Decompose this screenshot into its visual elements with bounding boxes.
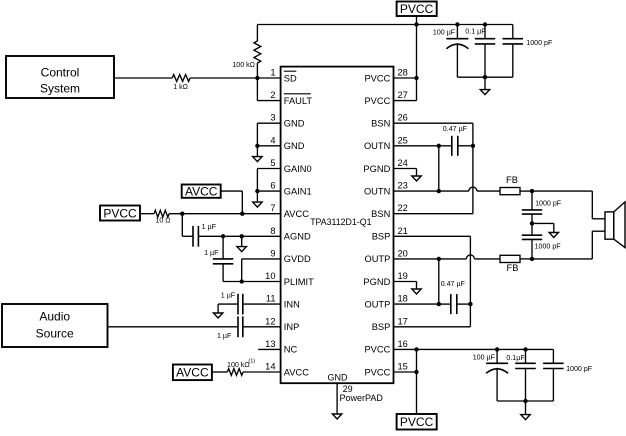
wire PowerPAD to ground xyxy=(336,383,338,414)
wire GAIN to ground xyxy=(256,191,258,202)
U1 pin 5 (GAIN0) label xyxy=(270,158,311,174)
node OUTN25 junction xyxy=(437,144,441,148)
svg-text:GND: GND xyxy=(328,373,349,383)
wire PVCC pin27 xyxy=(394,78,417,101)
wire PVCC pin15 xyxy=(394,371,417,373)
node AVCC filter junction xyxy=(180,212,184,216)
U1 pin 13 (NC) label xyxy=(265,339,297,355)
svg-text:PGND: PGND xyxy=(363,277,390,287)
svg-text:TPA3112D1-Q1: TPA3112D1-Q1 xyxy=(310,217,371,227)
block PVCC bottom label xyxy=(397,414,437,430)
label C13 0.1 uF xyxy=(506,354,525,362)
wire GVDD pin9 to PLIMIT xyxy=(242,259,281,282)
node PVCC16 junction xyxy=(414,347,418,351)
wire C2 to PLIMIT pin10 xyxy=(223,264,281,282)
svg-text:13: 13 xyxy=(265,339,275,349)
wire PVCC rail to pin28 xyxy=(416,25,418,79)
wire OUTP to speaker xyxy=(532,231,605,259)
wire rail corner to C14 xyxy=(552,349,554,363)
node rail-C13 junction xyxy=(523,347,527,351)
wire GND pin4 xyxy=(257,145,280,147)
svg-text:BSN: BSN xyxy=(371,209,390,219)
wire C8 to BSN xyxy=(458,145,473,147)
wire BSP pin17 xyxy=(394,326,471,328)
label C12 100 uF xyxy=(473,354,496,362)
wire R2 to node SD xyxy=(190,77,281,79)
wire C6 bottom lead xyxy=(484,44,486,77)
svg-text:0.1µF: 0.1µF xyxy=(506,354,525,362)
node BSN-C8 junction xyxy=(471,144,475,148)
wire top bank bottom rail xyxy=(457,76,512,78)
wire FB1 to output node xyxy=(520,190,532,192)
node GVDD-PLIMIT junction xyxy=(240,279,244,283)
node AGND-C2 junction xyxy=(221,234,225,238)
wire bottom bank ground stub xyxy=(525,401,527,415)
ground PGND24 xyxy=(412,176,421,181)
wire rail corner to R1 xyxy=(256,25,258,42)
svg-text:7: 7 xyxy=(270,203,275,213)
ground PGND19 xyxy=(412,289,421,294)
node rail-C5 junction xyxy=(455,22,459,26)
svg-text:1000 pF: 1000 pF xyxy=(535,243,562,251)
ground mid filter xyxy=(549,233,558,238)
capacitor C7 1000 pF xyxy=(503,39,524,44)
wire OUTN pin25 xyxy=(394,145,439,147)
label C7 1000 pF xyxy=(526,39,553,47)
wire C10 to OUTP node xyxy=(531,239,533,259)
svg-text:6: 6 xyxy=(270,181,275,191)
U1 pin 17 (BSP) label xyxy=(372,316,408,332)
U1 pin 9 (GVDD) label xyxy=(270,248,311,264)
wire C14 bottom lead xyxy=(552,369,554,402)
U1 pin 6 (GAIN1) label xyxy=(270,181,311,197)
node OUTP18 junction xyxy=(437,302,441,306)
svg-text:PVCC: PVCC xyxy=(364,367,390,377)
wire GND pins to ground xyxy=(256,146,258,157)
svg-text:1 kΩ: 1 kΩ xyxy=(173,83,188,91)
wire mid node to ground xyxy=(532,223,554,232)
wire GAIN0 pin5 xyxy=(257,169,280,192)
svg-text:OUTN: OUTN xyxy=(364,141,390,151)
svg-text:OUTP: OUTP xyxy=(364,254,390,264)
node AGND-gnd junction xyxy=(240,234,244,238)
svg-text:1: 1 xyxy=(270,68,275,78)
wire AVCC label to pin7 xyxy=(221,191,243,214)
svg-text:PowerPAD: PowerPAD xyxy=(340,393,384,403)
U1 pin 18 (OUTP) label xyxy=(364,294,407,310)
svg-text:FB: FB xyxy=(507,263,519,273)
svg-text:12: 12 xyxy=(265,316,275,326)
wire PVCC to R3 xyxy=(140,213,154,215)
svg-text:21: 21 xyxy=(398,226,408,236)
U1 pin 23 (OUTN) label xyxy=(364,181,408,197)
wire C4 to INP pin12 xyxy=(243,326,281,328)
node OUTP output junction xyxy=(530,257,534,261)
svg-text:AGND: AGND xyxy=(284,232,311,242)
ground GND3-4 xyxy=(253,157,262,162)
svg-text:PVCC: PVCC xyxy=(364,73,390,83)
label C6 0.1 uF xyxy=(465,27,486,35)
svg-text:0.1 µF: 0.1 µF xyxy=(465,27,486,35)
node SD junction xyxy=(255,76,259,80)
svg-text:PGND: PGND xyxy=(363,164,390,174)
svg-text:Source: Source xyxy=(36,327,74,341)
wire AVCC to C1 xyxy=(182,214,193,237)
resistor R2 1 k&#937; xyxy=(172,75,190,82)
svg-text:1000 pF: 1000 pF xyxy=(526,39,553,47)
node OUTN output junction xyxy=(530,189,534,193)
wire OUTN vertical link xyxy=(438,146,440,191)
node OUTN23 junction xyxy=(437,189,441,193)
U1 pin 26 (BSN) label xyxy=(371,113,408,129)
node rail-C12 junction xyxy=(495,347,499,351)
ground top bank xyxy=(480,90,489,95)
ground AGND xyxy=(237,247,246,252)
svg-text:8: 8 xyxy=(270,226,275,236)
wire C6 top lead xyxy=(484,25,486,39)
block AVCC label lower xyxy=(173,365,212,381)
node PVCC15 junction xyxy=(414,370,418,374)
node bottom bank ground junction xyxy=(523,399,527,403)
wire OUTN pin23 to FB xyxy=(394,187,501,191)
U1 pin 10 (PLIMIT) label xyxy=(265,271,314,287)
block AVCC label upper xyxy=(182,185,221,199)
ferrite bead FB1 xyxy=(500,188,520,195)
U1 pin 7 (AVCC) label xyxy=(270,203,309,219)
wire BSN pin22 xyxy=(394,213,473,215)
wire bottom bank rail xyxy=(497,400,553,402)
svg-text:3: 3 xyxy=(270,113,275,123)
label C10 1000 pF xyxy=(535,243,562,251)
wire PVCC label drop xyxy=(416,16,418,25)
node rail-PVCC junction xyxy=(414,22,418,26)
label C5 100 uF xyxy=(433,28,456,36)
svg-text:27: 27 xyxy=(398,90,408,100)
node BSP-C11 junction xyxy=(468,302,472,306)
svg-text:FB: FB xyxy=(506,175,518,185)
svg-text:AVCC: AVCC xyxy=(284,209,309,219)
wire GAIN1 pin6 xyxy=(257,190,280,192)
svg-text:1000 pF: 1000 pF xyxy=(535,200,562,208)
U1 pin 29 PowerPAD label xyxy=(328,373,384,403)
wire Control System to R2 xyxy=(114,77,172,79)
svg-text:1 µF: 1 µF xyxy=(204,249,219,257)
svg-text:PLIMIT: PLIMIT xyxy=(284,277,314,287)
label C1 1 uF xyxy=(202,223,217,231)
svg-text:10 Ω: 10 Ω xyxy=(155,217,170,225)
wire C5 bottom lead xyxy=(456,43,458,77)
node GND3-4 junction xyxy=(255,144,259,148)
wire OUTN to speaker xyxy=(532,191,605,219)
svg-text:2: 2 xyxy=(270,90,275,100)
U1 pin 3 (GND) label xyxy=(270,113,304,129)
label R3 10 &#937; xyxy=(155,217,170,225)
wire OUTP pin20 to FB xyxy=(394,255,501,259)
wire C7 bottom lead xyxy=(512,44,514,77)
svg-text:NC: NC xyxy=(284,345,298,355)
ground GAIN xyxy=(253,202,262,207)
U1 pin 21 (BSP) label xyxy=(372,226,408,242)
block PVCC left label xyxy=(100,206,140,221)
label C3 1 uF xyxy=(221,292,236,300)
wire BSP vertical lower xyxy=(469,304,471,327)
svg-text:(1): (1) xyxy=(248,358,255,364)
wire AVCC to R4 xyxy=(212,371,228,373)
wire Audio Source to C4 xyxy=(108,326,238,328)
svg-text:4: 4 xyxy=(270,135,275,145)
wire FAULT to node SD xyxy=(257,78,280,101)
node OUTP20 junction xyxy=(437,257,441,261)
svg-text:25: 25 xyxy=(398,135,408,145)
wire NC pin13 stub xyxy=(258,348,280,350)
label C4 1 uF xyxy=(217,332,232,340)
svg-text:GAIN0: GAIN0 xyxy=(284,164,312,174)
svg-text:5: 5 xyxy=(270,158,275,168)
svg-text:10: 10 xyxy=(265,271,275,281)
U1 pin 15 (PVCC) label xyxy=(364,362,407,378)
svg-text:Audio: Audio xyxy=(39,310,70,324)
label R1 100 k&#937; xyxy=(232,61,255,69)
label FB2 xyxy=(507,263,519,273)
node rail-C6 junction xyxy=(483,22,487,26)
wire C5 top lead xyxy=(456,25,458,39)
wire OUTP vertical link xyxy=(438,259,440,304)
svg-text:PVCC: PVCC xyxy=(364,345,390,355)
capacitor C3 1 uF INN xyxy=(238,294,243,315)
svg-text:GND: GND xyxy=(284,119,305,129)
wire C10 top lead xyxy=(531,223,533,235)
U1 pin 25 (OUTN) label xyxy=(364,135,408,151)
node top bank ground junction xyxy=(483,75,487,79)
ground INN xyxy=(213,313,222,318)
wire C1 to AGND pin8 xyxy=(198,235,280,237)
ferrite bead FB2 xyxy=(500,255,520,262)
block Control System xyxy=(6,56,114,98)
wire PVCC pin28 xyxy=(394,77,417,79)
svg-text:PVCC: PVCC xyxy=(400,415,434,429)
U1 pin 4 (GND) label xyxy=(270,135,304,151)
wire top bank ground stub xyxy=(484,77,486,89)
wire OUTN25 to C8 xyxy=(439,145,452,147)
svg-text:28: 28 xyxy=(398,68,408,78)
svg-text:PVCC: PVCC xyxy=(400,2,434,16)
svg-text:AVCC: AVCC xyxy=(185,185,218,199)
capacitor C4 1 uF INP xyxy=(238,316,243,337)
wire GND pin3 xyxy=(257,123,280,146)
svg-text:26: 26 xyxy=(398,113,408,123)
svg-text:19: 19 xyxy=(398,271,408,281)
wire top rail PVCC xyxy=(257,24,512,26)
U1 pin 14 (AVCC) label xyxy=(265,362,309,378)
svg-text:23: 23 xyxy=(398,181,408,191)
svg-text:16: 16 xyxy=(398,339,408,349)
svg-text:FAULT: FAULT xyxy=(284,96,313,106)
svg-text:9: 9 xyxy=(270,248,275,258)
U1 pin 16 (PVCC) label xyxy=(364,339,407,355)
speaker LS1 xyxy=(605,202,625,248)
svg-text:17: 17 xyxy=(398,316,408,326)
node mid cap junction xyxy=(530,221,534,225)
capacitor C5 100 uF xyxy=(446,39,468,49)
svg-text:1 µF: 1 µF xyxy=(217,332,232,340)
U1 pin 27 (PVCC) label xyxy=(364,90,407,106)
svg-text:OUTN: OUTN xyxy=(364,186,390,196)
svg-text:INP: INP xyxy=(284,322,300,332)
U1 pin 28 (PVCC) label xyxy=(364,68,407,84)
wire FB2 to output node xyxy=(520,258,532,260)
wire BSN pin26 xyxy=(394,123,473,146)
svg-text:OUTP: OUTP xyxy=(364,299,390,309)
U1 part label TPA3112D1-Q1 xyxy=(310,217,371,227)
wire pin16 rail xyxy=(417,348,554,350)
wire C12 bottom lead xyxy=(496,368,498,401)
wire OUTP pin18 to C11 xyxy=(394,303,451,305)
capacitor C12 100 uF xyxy=(486,363,508,373)
wire PVCC bottom drop xyxy=(416,349,418,414)
svg-text:0.47 µF: 0.47 µF xyxy=(443,125,468,133)
wire C11 to BSP xyxy=(457,303,471,305)
resistor R3 10 &#937; xyxy=(154,210,169,217)
wire R4 to AVCC pin14 xyxy=(243,371,281,373)
svg-text:15: 15 xyxy=(398,362,408,372)
wire C13 top lead xyxy=(525,349,527,363)
svg-text:AVCC: AVCC xyxy=(176,366,209,380)
capacitor C1 1 uF AVCC xyxy=(193,226,198,247)
resistor R1 100 k&#937; pull-up xyxy=(254,41,261,63)
wire C9 to mid node xyxy=(531,214,533,223)
node GAIN junction xyxy=(255,189,259,193)
capacitor C14 1000 pF xyxy=(543,363,564,368)
U1 pin 2 (FAULT) label xyxy=(270,90,312,106)
capacitor C6 0.1 uF xyxy=(475,39,495,44)
svg-text:20: 20 xyxy=(398,248,408,258)
U1 pin 22 (BSN) label xyxy=(371,203,408,219)
label R2 1 k&#937; xyxy=(173,83,188,91)
label R4 100 k&#937; xyxy=(227,358,255,369)
svg-text:1 µF: 1 µF xyxy=(221,292,236,300)
svg-text:INN: INN xyxy=(284,299,300,309)
wire PGND pin24 xyxy=(394,169,417,177)
svg-text:System: System xyxy=(40,82,80,96)
svg-text:24: 24 xyxy=(398,158,408,168)
U1 pin 8 (AGND) label xyxy=(270,226,311,242)
block PVCC top label xyxy=(397,2,437,17)
U1 pin 12 (INP) label xyxy=(265,316,299,332)
wire AGND to C2 xyxy=(222,236,224,258)
U1 pin 19 (PGND) label xyxy=(363,271,407,287)
wire R3 to AVCC pin7 xyxy=(169,213,281,215)
wire PGND pin19 xyxy=(394,282,417,290)
label C11 0.47 uF xyxy=(441,280,466,288)
wire C9 top lead xyxy=(531,191,533,210)
node PVCC28 junction xyxy=(414,76,418,80)
wire BSP pin21 xyxy=(394,236,471,304)
svg-text:BSP: BSP xyxy=(372,322,391,332)
svg-text:100 kΩ: 100 kΩ xyxy=(232,61,255,69)
svg-text:GVDD: GVDD xyxy=(284,254,311,264)
svg-text:1 µF: 1 µF xyxy=(202,223,217,231)
label C2 1 uF xyxy=(204,249,219,257)
U1 pin 20 (OUTP) label xyxy=(364,248,407,264)
wire AGND to ground xyxy=(241,236,243,246)
svg-text:14: 14 xyxy=(265,362,275,372)
wire BSN vertical xyxy=(472,146,474,214)
capacitor C13 0.1 uF xyxy=(515,363,536,368)
label C9 1000 pF xyxy=(535,200,562,208)
svg-text:BSP: BSP xyxy=(372,232,391,242)
svg-text:GAIN1: GAIN1 xyxy=(284,186,312,196)
capacitor C10 1000 pF xyxy=(522,235,542,239)
wire C12 top lead xyxy=(496,349,498,363)
op-amp U1 TPA3112D1-Q1 body xyxy=(281,67,394,384)
svg-text:100 kΩ: 100 kΩ xyxy=(227,361,250,369)
wire INN to ground branch xyxy=(218,304,238,313)
U1 pin 11 (INN) label xyxy=(266,294,300,310)
ground PowerPAD xyxy=(332,414,341,419)
ground bottom bank xyxy=(521,415,530,420)
svg-text:Control: Control xyxy=(41,66,80,80)
wire C13 bottom lead xyxy=(525,369,527,402)
label C8 0.47 uF xyxy=(443,125,468,133)
svg-text:AVCC: AVCC xyxy=(284,367,309,377)
svg-text:11: 11 xyxy=(266,294,276,304)
capacitor C11 0.47 uF bootstrap P xyxy=(451,294,457,314)
svg-text:GND: GND xyxy=(284,141,305,151)
wire R1 to node SD xyxy=(256,63,258,78)
resistor R4 100 k&#937; xyxy=(227,369,243,376)
wire PVCC pin16 xyxy=(394,348,417,350)
svg-text:1000 pF: 1000 pF xyxy=(566,365,593,373)
svg-text:22: 22 xyxy=(398,203,408,213)
svg-text:PVCC: PVCC xyxy=(364,96,390,106)
capacitor C9 1000 pF xyxy=(522,210,542,214)
capacitor C8 0.47 uF bootstrap N xyxy=(452,136,458,156)
node AVCC label junction xyxy=(240,212,244,216)
svg-text:PVCC: PVCC xyxy=(103,206,137,220)
U1 pin 24 (PGND) label xyxy=(363,158,407,174)
block Audio Source xyxy=(2,304,108,347)
wire C3 to INN pin11 xyxy=(243,303,281,305)
svg-text:0.47 µF: 0.47 µF xyxy=(441,280,466,288)
U1 pin 1 (SD) label xyxy=(270,68,297,84)
svg-text:SD: SD xyxy=(284,73,297,83)
svg-text:100 µF: 100 µF xyxy=(473,354,496,362)
svg-text:18: 18 xyxy=(398,294,408,304)
capacitor C2 1 uF GVDD xyxy=(213,259,234,264)
wire rail corner to C7 xyxy=(512,25,514,39)
svg-text:100 µF: 100 µF xyxy=(433,28,456,36)
svg-text:BSN: BSN xyxy=(371,119,390,129)
label FB1 xyxy=(506,175,518,185)
label C14 1000 pF xyxy=(566,365,593,373)
